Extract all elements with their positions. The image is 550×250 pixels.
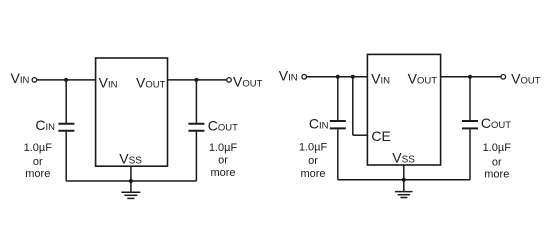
capacitor C_IN (right circuit) bbox=[330, 121, 346, 128]
capacitor C_OUT (right circuit) bbox=[462, 121, 478, 128]
svg-text:COUT: COUT bbox=[208, 117, 238, 133]
value label 1.0uF or more (left CIN) bbox=[24, 142, 53, 180]
wire (right CIN top lead) bbox=[337, 77, 339, 120]
junction (right input / CIN) bbox=[336, 75, 340, 79]
ground (left circuit) bbox=[121, 192, 140, 198]
junction (right VSS / bottom rail) bbox=[402, 178, 406, 182]
svg-text:VOUT: VOUT bbox=[136, 74, 166, 90]
node VIN (left circuit input label) bbox=[11, 70, 30, 86]
value label C_OUT (left) bbox=[208, 117, 238, 133]
wire (left VSS lead) bbox=[130, 166, 132, 192]
svg-text:VIN: VIN bbox=[99, 74, 118, 90]
wire (COUT bottom lead, left) bbox=[195, 132, 197, 181]
wire (right COUT top lead) bbox=[469, 77, 471, 120]
value label C_IN (right) bbox=[309, 115, 329, 131]
node VIN (right circuit input label) bbox=[279, 67, 298, 83]
terminal VOUT (left circuit output terminal) bbox=[227, 78, 232, 83]
op-amp U1 (left regulator IC body) bbox=[96, 58, 168, 166]
svg-text:CIN: CIN bbox=[35, 117, 55, 133]
value label 1.0uF or more (left COUT) bbox=[209, 142, 238, 179]
wire (CIN top lead) bbox=[65, 80, 67, 123]
svg-text:more: more bbox=[484, 168, 509, 180]
value label 1.0uF or more (right COUT) bbox=[483, 142, 512, 181]
svg-text:1.0µF: 1.0µF bbox=[209, 142, 238, 154]
ground (right circuit) bbox=[395, 192, 413, 198]
svg-text:VOUT: VOUT bbox=[511, 70, 541, 86]
wire (left output horizontal) bbox=[168, 79, 227, 81]
svg-text:more: more bbox=[300, 168, 325, 180]
svg-text:more: more bbox=[210, 167, 235, 179]
svg-text:VIN: VIN bbox=[11, 70, 30, 86]
pin VIN (left IC) bbox=[99, 74, 118, 90]
pin VIN (right IC) bbox=[371, 70, 390, 86]
value label 1.0uF or more (right CIN) bbox=[299, 141, 328, 180]
node VOUT (right circuit output label) bbox=[511, 70, 541, 86]
wire (right VSS lead) bbox=[403, 165, 405, 192]
wire (right CIN bottom lead) bbox=[337, 129, 339, 179]
svg-text:1.0µF: 1.0µF bbox=[24, 142, 53, 154]
wire (left input horizontal) bbox=[37, 79, 96, 81]
wire (right input horizontal) bbox=[307, 76, 368, 78]
svg-text:more: more bbox=[25, 168, 50, 180]
pin VSS (left IC) bbox=[119, 150, 142, 166]
svg-text:or: or bbox=[492, 156, 502, 168]
capacitor C_IN (left circuit) bbox=[58, 124, 74, 131]
svg-text:CIN: CIN bbox=[309, 115, 329, 131]
pin VOUT (right IC) bbox=[408, 70, 438, 86]
node VOUT (left circuit output label) bbox=[233, 73, 263, 89]
wire (left circuit bottom rail) bbox=[66, 180, 196, 182]
pin VOUT (left IC) bbox=[136, 74, 166, 90]
pin VSS (right IC) bbox=[392, 149, 415, 165]
svg-text:1.0µF: 1.0µF bbox=[299, 141, 328, 153]
svg-text:VIN: VIN bbox=[279, 67, 298, 83]
junction (right output / COUT) bbox=[468, 75, 472, 79]
junction (left input / CIN) bbox=[64, 78, 68, 82]
svg-text:VIN: VIN bbox=[371, 70, 390, 86]
svg-text:VOUT: VOUT bbox=[408, 70, 438, 86]
capacitor C_OUT (left circuit) bbox=[188, 124, 204, 131]
wire (right output horizontal) bbox=[441, 76, 502, 78]
value label C_OUT (right) bbox=[481, 115, 511, 131]
terminal VOUT (right circuit output terminal) bbox=[501, 75, 506, 80]
wire (COUT top lead, left) bbox=[195, 80, 197, 123]
wire (CE vertical drop) bbox=[352, 77, 354, 135]
svg-text:VOUT: VOUT bbox=[233, 73, 263, 89]
wire (right circuit bottom rail) bbox=[338, 179, 470, 181]
wire (CE horizontal into IC) bbox=[353, 134, 368, 136]
pin CE (right IC) bbox=[371, 128, 390, 144]
wire (CIN bottom lead) bbox=[65, 132, 67, 181]
svg-text:or: or bbox=[308, 155, 318, 167]
wire (right COUT bottom lead) bbox=[469, 129, 471, 179]
svg-text:1.0µF: 1.0µF bbox=[483, 142, 512, 154]
svg-text:or: or bbox=[33, 156, 43, 168]
svg-text:COUT: COUT bbox=[481, 115, 511, 131]
svg-text:or: or bbox=[218, 154, 228, 166]
junction (right input / CE) bbox=[351, 75, 355, 79]
terminal VIN (left circuit input terminal) bbox=[32, 78, 37, 83]
terminal VIN (right circuit input terminal) bbox=[302, 75, 307, 80]
junction (left VSS / bottom rail) bbox=[129, 179, 133, 183]
junction (left output / COUT) bbox=[194, 78, 198, 82]
svg-text:VSS: VSS bbox=[392, 149, 415, 165]
value label C_IN (left) bbox=[35, 117, 55, 133]
svg-text:CE: CE bbox=[371, 128, 390, 144]
svg-text:VSS: VSS bbox=[119, 150, 142, 166]
op-amp U2 (right regulator IC body) bbox=[367, 54, 440, 165]
